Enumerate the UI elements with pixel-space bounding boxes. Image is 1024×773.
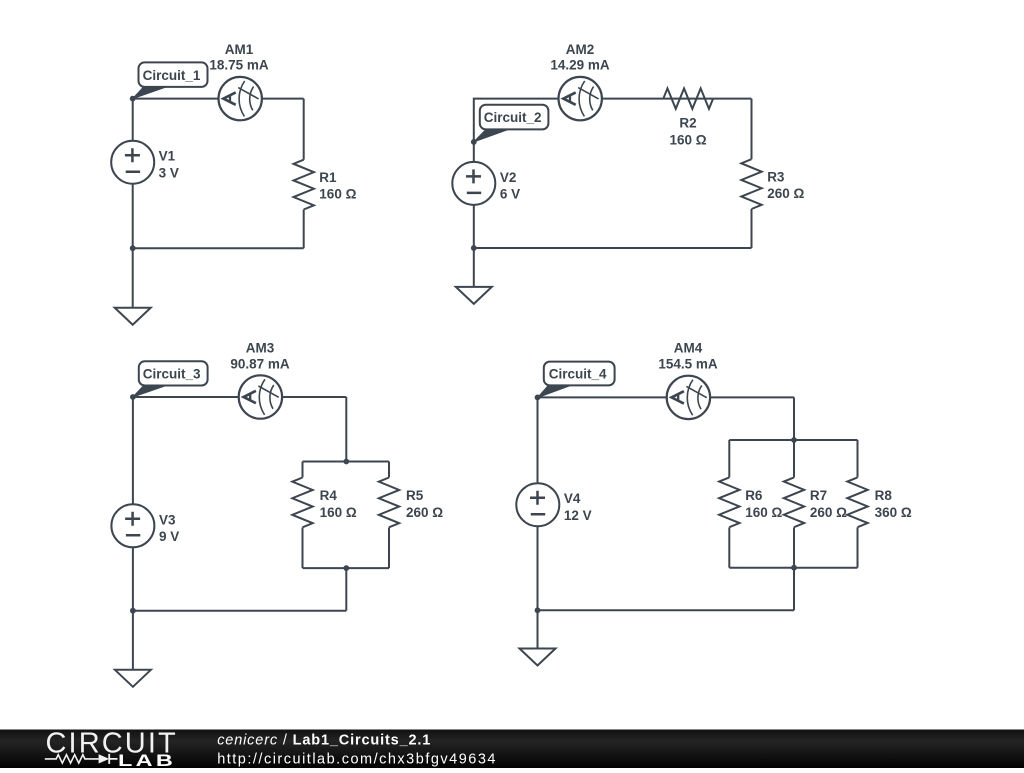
- svg-text:160 Ω: 160 Ω: [320, 505, 357, 520]
- wire: circuit 2 node to V2 top: [473, 142, 475, 162]
- svg-text:3 V: 3 V: [159, 166, 179, 181]
- svg-text:R1: R1: [319, 170, 337, 185]
- node: circuit 1 top-left: [130, 96, 136, 102]
- svg-text:6 V: 6 V: [500, 187, 520, 202]
- node: circuit 3 parallel top: [343, 459, 349, 465]
- resistor R3: [741, 159, 761, 209]
- wire: R8 bottom lead: [857, 527, 859, 567]
- resistor R4: [292, 478, 312, 528]
- voltage source V2: [452, 162, 495, 205]
- svg-text:18.75 mA: 18.75 mA: [209, 58, 269, 73]
- svg-text:90.87 mA: 90.87 mA: [230, 356, 290, 371]
- svg-text:R8: R8: [875, 488, 893, 503]
- wire: circuit 4 right vertical to parallel top rail: [793, 397, 795, 440]
- node: circuit 4 top-left: [535, 395, 541, 401]
- svg-text:R4: R4: [320, 488, 338, 503]
- wire: circuit 4 bottom: [538, 609, 795, 611]
- node: circuit 4 parallel bottom: [791, 565, 797, 571]
- wire: circuit 4 top: [538, 396, 795, 398]
- svg-text:260 Ω: 260 Ω: [810, 505, 847, 520]
- node: circuit 2 flag node: [471, 139, 477, 145]
- wire: parallel block top rail (circuit 3): [303, 461, 390, 463]
- wire: V3 bottom to bottom node: [132, 547, 134, 610]
- resistor R8: [847, 477, 867, 527]
- svg-text:R5: R5: [406, 488, 424, 503]
- svg-text:360 Ω: 360 Ω: [875, 505, 912, 520]
- node: circuit 1 bottom-left: [130, 245, 136, 251]
- svg-text:160 Ω: 160 Ω: [745, 505, 782, 520]
- wire: circuit 4 ground stem: [537, 610, 539, 648]
- wire: R5 bottom lead: [388, 528, 390, 569]
- ammeter AM1: [219, 77, 262, 120]
- svg-text:V2: V2: [500, 170, 517, 185]
- voltage source V1: [111, 141, 154, 184]
- ammeter AM3: [239, 375, 282, 418]
- wire: circuit 4 left vertical (node to V4 top): [537, 397, 539, 483]
- wire: circuit 2 top: [474, 99, 752, 142]
- footer bar: [0, 730, 1024, 769]
- wire: circuit 1 right vertical (corner to R1): [303, 99, 305, 160]
- svg-text:AM3: AM3: [246, 341, 275, 356]
- wire: circuit 3 bottom: [133, 610, 346, 612]
- wire: circuit 3 ground stem: [132, 611, 134, 670]
- wire: circuit 3 right vertical to parallel top rail: [345, 397, 347, 462]
- wire: R4 top lead: [302, 462, 304, 478]
- wire: R7 bottom lead: [793, 527, 795, 567]
- node: circuit 2 bottom-left: [471, 245, 477, 251]
- ground (circuit 1): [115, 308, 151, 325]
- svg-text:260 Ω: 260 Ω: [406, 505, 443, 520]
- svg-text:Circuit_2: Circuit_2: [484, 110, 542, 125]
- svg-text:http://circuitlab.com/chx3bfgv: http://circuitlab.com/chx3bfgv49634: [217, 751, 497, 767]
- wire: circuit 3 vertical from bottom rail: [345, 568, 347, 611]
- svg-text:Circuit_4: Circuit_4: [549, 367, 607, 382]
- wire: circuit 1 right lower (R1 to bottom wire): [303, 210, 305, 249]
- wire: circuit 2 right vertical lower: [751, 209, 753, 248]
- wire: parallel block top rail (circuit 4): [729, 439, 857, 441]
- wire: circuit 1 bottom: [133, 247, 304, 249]
- svg-text:160 Ω: 160 Ω: [669, 133, 706, 148]
- svg-text:V1: V1: [159, 149, 176, 164]
- wire: circuit 2 bottom: [474, 247, 752, 249]
- wire: circuit 2 right vertical upper: [751, 99, 753, 160]
- ground (circuit 2): [456, 287, 492, 304]
- svg-text:V4: V4: [564, 491, 581, 506]
- wire: parallel block bottom rail (circuit 3): [303, 567, 390, 569]
- ammeter AM2: [559, 77, 602, 120]
- svg-text:154.5 mA: 154.5 mA: [658, 356, 718, 371]
- wire: circuit 2 ground stem: [473, 248, 475, 287]
- voltage source V3: [111, 504, 154, 547]
- resistor R1: [294, 160, 314, 210]
- flag Circuit_1: [133, 62, 208, 98]
- svg-text:Circuit_1: Circuit_1: [143, 68, 201, 83]
- wire: parallel block bottom rail (circuit 4): [729, 567, 857, 569]
- svg-text:12 V: 12 V: [564, 508, 592, 523]
- wire: circuit 3 top: [133, 396, 346, 398]
- ammeter AM4: [667, 376, 710, 419]
- svg-text:R2: R2: [679, 116, 696, 131]
- resistor R7: [784, 477, 804, 527]
- wire: circuit 1 ground stem: [132, 248, 134, 308]
- ground (circuit 3): [115, 670, 151, 687]
- node: circuit 3 parallel bottom: [343, 565, 349, 571]
- wire: R6 top lead: [728, 440, 730, 477]
- svg-text:14.29 mA: 14.29 mA: [550, 58, 610, 73]
- node: circuit 3 bottom-left: [130, 608, 136, 614]
- flag Circuit_2: [474, 105, 549, 142]
- svg-text:cenicerc / Lab1_Circuits_2.1: cenicerc / Lab1_Circuits_2.1: [217, 732, 431, 748]
- svg-text:260 Ω: 260 Ω: [767, 186, 804, 201]
- wire: R7 top lead: [793, 440, 795, 477]
- svg-text:R3: R3: [767, 169, 785, 184]
- wire: V4 bottom to bottom node: [537, 526, 539, 610]
- svg-text:160 Ω: 160 Ω: [319, 187, 356, 202]
- CircuitLab logo: resistor-diode glyph: [45, 755, 99, 763]
- node: circuit 3 top-left: [130, 394, 136, 400]
- wire: R6 bottom lead: [728, 527, 730, 567]
- voltage source V4: [516, 483, 559, 526]
- svg-text:Circuit_3: Circuit_3: [143, 367, 201, 382]
- svg-text:AM1: AM1: [225, 42, 254, 57]
- wire: circuit 1 top from node to corner: [133, 98, 304, 100]
- resistor R6: [719, 477, 739, 527]
- svg-text:LAB: LAB: [118, 751, 176, 768]
- node: circuit 4 bottom-left: [535, 607, 541, 613]
- svg-text:V3: V3: [159, 512, 176, 527]
- svg-text:AM2: AM2: [566, 42, 595, 57]
- wire: V2 bottom to bottom node: [473, 205, 475, 248]
- resistor R2: [663, 88, 713, 108]
- wire: V1 bottom to bottom node: [132, 184, 134, 249]
- wire: R4 bottom lead: [302, 528, 304, 569]
- wire: R5 top lead: [388, 462, 390, 478]
- ground (circuit 4): [520, 649, 556, 666]
- resistor R5: [379, 478, 399, 528]
- svg-text:R7: R7: [810, 488, 827, 503]
- wire: circuit 3 left vertical (node to V3 top): [132, 397, 134, 504]
- svg-text:9 V: 9 V: [159, 529, 179, 544]
- node: circuit 4 parallel top: [791, 437, 797, 443]
- flag Circuit_3: [133, 361, 208, 397]
- svg-text:R6: R6: [745, 488, 763, 503]
- wire: R8 top lead: [857, 440, 859, 477]
- flag Circuit_4: [538, 362, 615, 398]
- wire: circuit 4 vertical from bottom rail: [793, 568, 795, 611]
- svg-text:AM4: AM4: [674, 341, 703, 356]
- wire: circuit 1 left vertical (node to V1 top): [132, 99, 134, 141]
